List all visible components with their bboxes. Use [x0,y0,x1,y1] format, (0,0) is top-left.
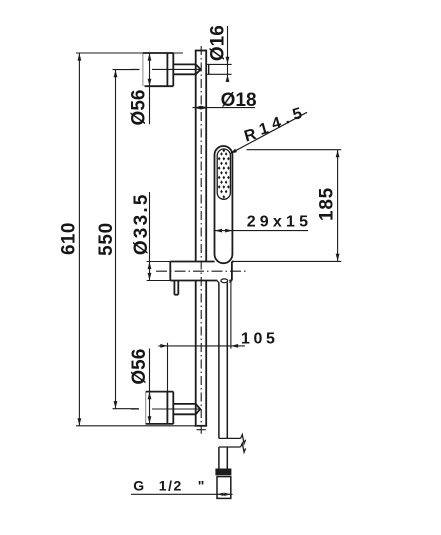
dimension D16 extension lines [206,64,231,74]
dimension D18 text [221,90,257,111]
dimension D16 line [227,26,229,82]
svg-text:105: 105 [241,331,279,348]
dimension D33.5 line [149,192,151,280]
hose nipple [217,279,231,283]
dimension 29x15 line [214,230,309,232]
spray nozzle dots [218,149,230,199]
dimension D56 top text [128,90,149,126]
dimension D33.5 text [131,192,152,255]
dimension 550 text [96,222,117,256]
svg-text:Ø18: Ø18 [221,90,257,111]
top bracket flange divider [166,53,168,86]
dimension 29x15 text [247,214,313,231]
top bracket arm cone tip [196,64,201,74]
dimension 610 arrows [78,53,82,425]
dimension 185 arrows [336,150,340,261]
dimension 105 text [241,331,279,348]
radius R14.5 text [240,102,311,148]
hose upper section [219,282,227,438]
dimension 185 extension lines [234,150,342,262]
dimension 610 extension line bottom [76,425,195,427]
svg-text:Ø56: Ø56 [129,349,150,385]
top bracket centerline [131,68,200,70]
hand shower body outline [215,146,233,263]
radius R14.5 leader line [230,112,307,154]
dimension D16 arrows [226,57,230,82]
svg-text:29x15: 29x15 [247,214,313,231]
svg-text:": " [198,477,205,493]
svg-text:1/2: 1/2 [159,477,183,493]
svg-text:185: 185 [316,187,337,221]
rail bottom end cap [195,425,207,427]
dimension 105 arrows [160,344,238,348]
svg-text:G: G [133,477,144,493]
dimension D18 arrows [194,106,209,110]
slider right edge [231,262,233,281]
hand shower spray face [217,149,230,199]
dimension D18 line [193,107,255,109]
top bracket arm [173,64,208,75]
slider left edge [169,262,171,281]
rail top end cap [195,50,207,52]
hose lower section [219,447,227,469]
slider lock pin [174,281,178,295]
svg-text:Ø33.5: Ø33.5 [131,192,152,255]
bottom bracket arm [173,404,195,414]
hose connector G half inch [217,477,231,499]
thread G 1/2 line [131,493,233,495]
svg-text:610: 610 [58,222,79,255]
dimension 610 text [58,222,79,255]
rail tube left edge [195,51,197,426]
dimension D56 top arrows [148,53,152,86]
slider body bottom edge [147,280,232,282]
dimension 610 extension line top [76,52,183,54]
rail centerline [197,46,206,434]
dimension 105 line [158,345,245,347]
bottom bracket flange divider [166,392,168,424]
bottom bracket centerline [131,408,200,410]
dimension D56 bottom text [129,349,150,385]
dimension 550 line [115,70,117,409]
top wall bracket body [143,53,173,86]
dimension 29x15 arrows [215,229,233,233]
svg-text:Ø16: Ø16 [208,25,229,61]
dimension 105 extension lines [168,281,231,392]
rail tube right edge [205,51,207,426]
hose break lines [219,435,246,453]
dimension 550 extension lines [113,70,140,409]
radius R14.5 arrow [230,149,237,154]
dimension D33.5 arrows [148,262,152,280]
slider body top edge [147,261,234,263]
dimension D56 bottom line [149,349,151,424]
bottom wall bracket body [146,392,174,424]
dimension D16 text [208,25,229,61]
dimension D56 top line [149,53,151,124]
dimension 550 arrows [114,70,118,408]
hose nut [215,469,231,476]
dimension 610 line [78,53,80,426]
thread G 1/2 arrows [217,493,230,496]
dimension 185 text [316,187,337,221]
slider centerline [156,270,247,272]
dimension D56 bottom arrows [148,392,152,424]
thread G 1/2 text [133,477,204,493]
dimension 185 line [337,150,339,262]
svg-text:550: 550 [96,222,117,256]
bottom bracket arm cone tip [196,404,201,414]
svg-text:Ø56: Ø56 [128,90,149,126]
